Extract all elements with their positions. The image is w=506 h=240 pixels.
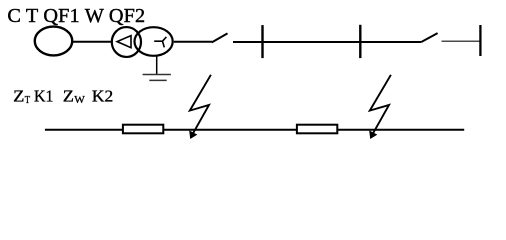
fault arrowhead K1 bbox=[190, 131, 197, 138]
delta symbol in primary bbox=[117, 36, 131, 48]
fault arrowhead K2 bbox=[370, 131, 377, 138]
svg-text:K1: K1 bbox=[34, 86, 54, 105]
busbar tick node 1 bbox=[261, 25, 263, 58]
wye symbol in secondary bbox=[154, 37, 166, 48]
svg-text:C T QF1 W QF2: C T QF1 W QF2 bbox=[7, 5, 145, 27]
switch QF2 blade bbox=[421, 33, 437, 42]
ground bbox=[143, 74, 171, 76]
busbar tick node 2 bbox=[359, 25, 361, 58]
wire impedance line bbox=[45, 129, 464, 131]
fault bolt K2 bbox=[370, 75, 391, 135]
svg-text:K2: K2 bbox=[92, 86, 113, 105]
impedance ZT box bbox=[123, 125, 163, 134]
switch QF1 blade bbox=[212, 33, 228, 42]
wire QF2 to end tick bbox=[442, 40, 481, 42]
wire transformer neutral to ground bbox=[156, 56, 158, 75]
fault bolt K1 bbox=[190, 75, 211, 135]
svg-text:Z: Z bbox=[63, 86, 74, 105]
busbar tick node 3 bbox=[479, 25, 481, 56]
wire W line section bbox=[233, 41, 421, 43]
svg-text:T: T bbox=[25, 95, 31, 106]
transformer T secondary winding bbox=[135, 27, 173, 56]
transformer T primary winding bbox=[112, 27, 141, 57]
impedance ZW box bbox=[297, 125, 337, 134]
generator C bbox=[35, 27, 73, 56]
wire transformer to switch QF1 bbox=[174, 41, 212, 43]
wire generator to transformer bbox=[73, 41, 111, 43]
svg-text:Z: Z bbox=[13, 86, 24, 105]
svg-text:W: W bbox=[74, 95, 85, 106]
